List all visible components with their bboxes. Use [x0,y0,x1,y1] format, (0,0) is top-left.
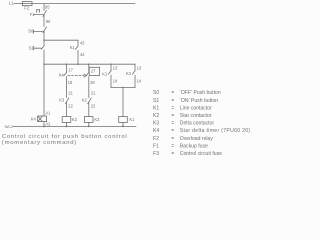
svg-text:Overload relay: Overload relay [180,136,214,142]
svg-text:Control circuit fuse: Control circuit fuse [180,151,222,156]
svg-text:Star contactor: Star contactor [180,113,212,119]
svg-text:14: 14 [113,79,118,84]
svg-text:22: 22 [68,103,73,108]
wire branch node A to K1 43-44 [44,39,78,41]
svg-text:27: 27 [91,68,96,73]
svg-text:13: 13 [137,66,142,71]
svg-text:=: = [171,98,174,104]
junction bus/K1 44 [77,63,78,64]
wire K1 coil to bottom rail [122,122,124,126]
junction bus/main column [43,63,44,64]
svg-text:K2: K2 [82,98,88,103]
svg-text:13: 13 [113,66,118,71]
wire 18 to contact 21 [66,77,68,98]
wire bus to K4 contact 17 [66,64,68,72]
svg-text:=: = [171,121,174,127]
wire top rail [14,3,135,5]
svg-text:K1: K1 [102,71,108,76]
svg-text:28: 28 [90,80,95,85]
svg-text:K3: K3 [94,117,100,122]
junction K4/rail [43,126,45,128]
svg-text:K4: K4 [31,116,37,121]
svg-text:Star delta timer (7PU60 20): Star delta timer (7PU60 20) [180,128,250,134]
legend K2 [153,113,212,119]
wire bus to K4 contact 27 [88,64,90,72]
contact K1 43-44 (NO latch) [75,46,78,50]
svg-text:K2: K2 [72,117,78,122]
wire S0 to node A [43,31,45,40]
junction K3/rail [88,126,90,128]
wire K2 coil to bottom rail [66,122,68,126]
svg-text:96: 96 [46,19,51,24]
svg-text:=: = [171,136,174,142]
contact K2 13-14 (NO) [132,71,135,75]
contact K3 21-22 (NC interlock) [65,98,69,104]
svg-text:S0: S0 [153,90,159,96]
svg-text:Backup fuse: Backup fuse [180,143,208,149]
wire bus corner to K2 contact 13 [134,64,136,70]
junction node A tee [43,40,44,41]
contact S1 (NO) [41,46,44,50]
wire bottom rail [13,125,136,127]
contact F1 95-96 (NC) [43,11,47,17]
legend F2 [153,136,213,142]
legend K3 [153,121,214,127]
wire join to K1 coil [122,88,124,117]
junction join/K1 coil [122,87,123,88]
wire bus to K4 coil [43,64,45,116]
svg-text:Delta contactor: Delta contactor [180,121,215,127]
wire rail to F1 contact [43,4,45,11]
timer symbol in K4 coil [38,117,42,122]
svg-text:95: 95 [45,5,50,10]
wire K1 13-14 to join [110,75,112,88]
push button S1 actuator [34,46,42,49]
svg-text:21: 21 [68,90,73,95]
svg-text:22: 22 [91,103,96,108]
wire bus to K1 contact 13 [110,64,112,70]
svg-text:K4: K4 [153,128,159,134]
wire F1 leader [34,14,43,16]
svg-text:A1: A1 [45,111,51,116]
contact S0 (NC) [43,27,47,33]
legend K4 [153,128,250,134]
legend S0 [153,90,221,96]
svg-text:F2: F2 [153,136,159,142]
coil K1 [119,117,128,123]
svg-text:43: 43 [80,40,85,45]
linkage arrowhead [84,74,87,77]
wire node A to S1 [43,40,45,45]
junction K2/rail [66,126,68,128]
svg-text:K2: K2 [126,71,132,76]
svg-text:N/L2: N/L2 [5,124,13,129]
fuse F2 [22,2,32,6]
svg-text:14: 14 [137,79,142,84]
legend K1 [153,105,212,111]
push button S0 actuator [33,30,43,34]
svg-text:L1: L1 [9,1,14,6]
wire 28 to contact 21 [88,77,90,98]
svg-text:=: = [171,105,174,111]
svg-text:A2: A2 [45,121,51,126]
svg-text:‘OFF’ Push button: ‘OFF’ Push button [180,90,221,96]
svg-text:21: 21 [91,90,96,95]
wire branch down to K1 aux contact [77,40,79,45]
svg-text:K3: K3 [153,121,159,127]
wire S1 to bus [43,50,45,64]
wire join of 13-14 contacts [111,87,135,89]
svg-text:S1: S1 [153,98,159,104]
contact K4 27-28 (timer) [86,72,89,76]
legend F1 [153,143,208,149]
svg-text:K1: K1 [70,45,76,50]
svg-text:K4: K4 [59,72,65,77]
svg-text:=: = [171,151,174,156]
svg-text:K1: K1 [153,105,159,111]
coil K3 [84,117,93,123]
svg-text:=: = [171,143,174,149]
wire bus rail [44,63,135,65]
contact K2 21-22 (NC interlock) [88,98,92,104]
svg-text:17: 17 [68,67,73,72]
mechanical linkage dashes [68,75,84,77]
wire K3 coil to bottom rail [88,122,90,126]
legend F3 [153,151,222,157]
svg-text:(momentary command): (momentary command) [2,140,77,146]
wire 22 to K3 coil [88,102,90,116]
overload release device F1 [37,10,40,13]
wire 22 to K2 coil [66,102,68,116]
junction bus/K4 17 [66,63,67,64]
svg-text:18: 18 [68,80,73,85]
wire K1 aux to bus [77,50,79,64]
svg-text:K1: K1 [129,117,135,122]
contact K1 13-14 (NO) [108,71,111,75]
coil K2 [62,117,71,123]
contact K4 17-18 (timer) [64,72,67,76]
svg-text:=: = [171,90,174,96]
coil K4 (timer) [38,116,47,122]
junction bus/K1 13 [110,63,111,64]
svg-text:F1: F1 [153,143,159,149]
svg-text:44: 44 [80,52,85,57]
svg-text:‘ON’ Push button: ‘ON’ Push button [180,98,218,104]
wire F1 to S0 [43,15,45,26]
svg-text:F2: F2 [24,5,30,10]
svg-text:K2: K2 [153,113,159,119]
svg-text:K3: K3 [59,98,65,103]
legend S1 [153,98,218,104]
junction bus/K4 27 [88,63,89,64]
terminal box 27 [89,67,99,75]
svg-text:Line contactor: Line contactor [180,105,212,111]
svg-text:=: = [171,128,174,134]
svg-text:=: = [171,113,174,119]
wire K4 coil to bottom rail [43,122,45,127]
svg-text:F3: F3 [153,151,159,156]
wire K2 13-14 to join [134,75,136,88]
junction K1/rail [122,126,124,128]
